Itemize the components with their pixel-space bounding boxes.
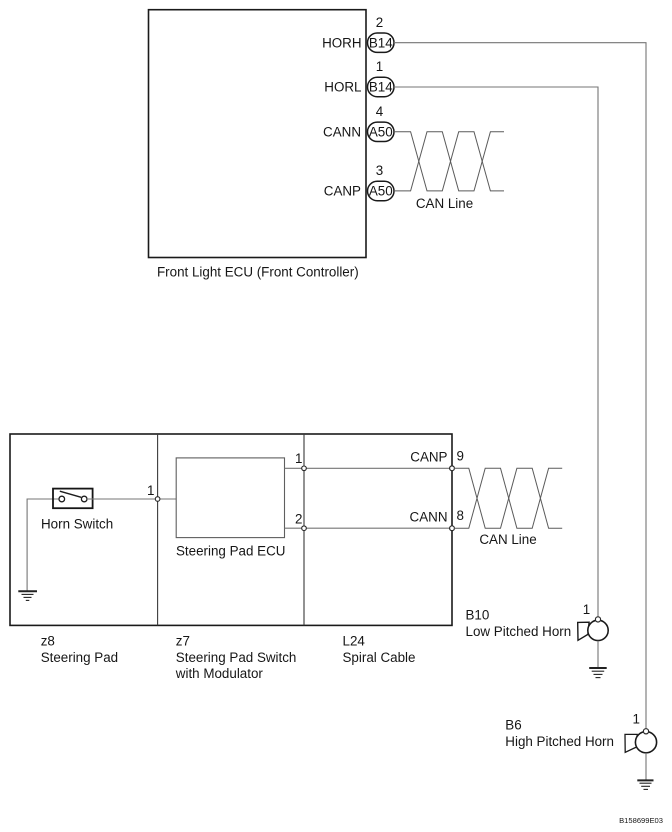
svg-text:CAN Line: CAN Line xyxy=(416,196,473,211)
wire: ECU pin 2 to spiral cable CANN xyxy=(285,527,453,529)
svg-text:B14: B14 xyxy=(369,80,393,95)
node at z7/L24 divider (pin1) xyxy=(302,466,307,471)
svg-text:2: 2 xyxy=(295,511,302,526)
CAN twisted pair (top): wire CANP xyxy=(394,132,504,191)
CAN twisted pair (top): wire CANN xyxy=(394,132,504,191)
wire HORH: B14-2 to high pitched horn xyxy=(394,43,646,730)
Steering Pad ECU box U2 xyxy=(176,458,284,538)
svg-text:CANN: CANN xyxy=(410,510,448,525)
svg-text:1: 1 xyxy=(295,451,302,466)
svg-text:z7: z7 xyxy=(176,633,190,648)
svg-text:B158699E03: B158699E03 xyxy=(619,816,663,825)
node at z7/L24 divider (pin2) xyxy=(302,526,307,531)
wire HORL: B14-1 to low pitched horn xyxy=(394,87,598,618)
CAN twisted pair (bottom): wire CANP xyxy=(454,468,562,528)
connector B14 pin 2 oval xyxy=(368,33,395,52)
svg-text:B10: B10 xyxy=(466,608,490,623)
svg-text:CANN: CANN xyxy=(323,124,361,139)
svg-text:9: 9 xyxy=(457,448,464,463)
svg-text:HORH: HORH xyxy=(322,35,361,50)
ECU U1 box: Front Light ECU (Front Controller) xyxy=(149,10,367,258)
svg-text:Low Pitched Horn: Low Pitched Horn xyxy=(466,624,572,639)
node CANP at box edge xyxy=(450,466,455,471)
svg-text:CANP: CANP xyxy=(324,184,361,199)
svg-text:3: 3 xyxy=(376,163,383,178)
svg-text:HORL: HORL xyxy=(324,80,361,95)
label Steering Pad Switch with Modulator xyxy=(175,650,297,681)
node 1 at z8/z7 divider xyxy=(155,497,160,502)
divider z7/L24 xyxy=(303,434,305,625)
connector B14 pin 1 oval xyxy=(368,77,395,96)
svg-text:CANP: CANP xyxy=(410,450,447,465)
svg-text:High Pitched Horn: High Pitched Horn xyxy=(505,734,614,749)
svg-text:8: 8 xyxy=(457,508,464,523)
svg-text:Steering Pad Switch: Steering Pad Switch xyxy=(176,650,297,665)
node CANN at box edge xyxy=(450,526,455,531)
svg-text:1: 1 xyxy=(147,483,154,498)
svg-text:4: 4 xyxy=(376,104,384,119)
svg-text:Steering Pad: Steering Pad xyxy=(41,650,118,665)
svg-text:A50: A50 xyxy=(369,124,393,139)
svg-text:CAN Line: CAN Line xyxy=(479,532,536,547)
svg-text:1: 1 xyxy=(583,602,590,617)
steering assembly outer box xyxy=(10,434,452,625)
horn switch S1 xyxy=(53,489,93,509)
wire: high horn to ground xyxy=(645,753,647,780)
wire: ECU pin 1 to spiral cable CANP xyxy=(285,467,453,469)
svg-text:Front Light ECU (Front Control: Front Light ECU (Front Controller) xyxy=(157,265,359,280)
svg-text:Horn Switch: Horn Switch xyxy=(41,516,113,531)
svg-text:B6: B6 xyxy=(505,718,521,733)
svg-text:z8: z8 xyxy=(41,633,55,648)
wire: horn switch to steering pad ECU xyxy=(87,498,176,500)
low pitched horn B10 symbol xyxy=(578,617,609,641)
svg-text:2: 2 xyxy=(376,15,383,30)
wire: low horn to ground xyxy=(597,641,599,668)
connector A50 pin 4 oval xyxy=(368,122,395,141)
CAN twisted pair (bottom): wire CANN xyxy=(454,468,562,528)
svg-text:B14: B14 xyxy=(369,35,393,50)
connector A50 pin 3 oval xyxy=(368,181,395,200)
svg-text:with Modulator: with Modulator xyxy=(175,666,264,681)
divider z8/z7 xyxy=(157,434,159,625)
ground G3 (high horn) xyxy=(637,780,653,789)
svg-text:1: 1 xyxy=(633,712,640,727)
high pitched horn B6 symbol xyxy=(625,729,657,753)
svg-text:L24: L24 xyxy=(343,633,366,648)
ground G2 (low horn) xyxy=(589,668,607,678)
wire: ground riser to horn switch xyxy=(27,499,59,591)
svg-text:Spiral Cable: Spiral Cable xyxy=(343,650,416,665)
svg-text:A50: A50 xyxy=(369,184,393,199)
svg-text:Steering Pad ECU: Steering Pad ECU xyxy=(176,544,285,559)
svg-text:1: 1 xyxy=(376,59,383,74)
ground G1 (steering pad) xyxy=(18,591,37,600)
